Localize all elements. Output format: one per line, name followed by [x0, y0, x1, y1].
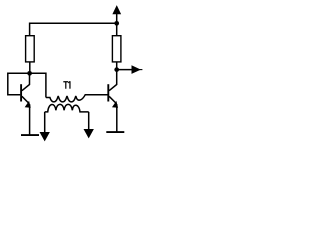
resistor R1	[26, 36, 35, 62]
wire output to the right	[117, 69, 133, 71]
wire top rail from R1 top to supply node	[30, 23, 117, 35]
wire base feedback loop to Q1 base	[8, 73, 30, 95]
transistor Q2 base bar	[107, 84, 109, 101]
wire R2 bottom lead	[116, 62, 118, 70]
wire Q1 emitter down	[29, 104, 31, 135]
power supply arrow up	[116, 13, 118, 23]
ground (bar) under Q2	[106, 131, 124, 133]
transistor Q1 base bar	[20, 84, 22, 101]
resistor R2	[112, 36, 121, 62]
label T1	[63, 81, 70, 89]
node VCC junction	[114, 21, 119, 26]
node A (R1 bottom / Q1 base-collector junction)	[27, 71, 32, 76]
wire T1 secondary right terminal down	[88, 112, 90, 130]
transformer T1 primary winding (upper)	[46, 95, 108, 102]
transistor Q2 emitter	[109, 96, 116, 103]
wire R2 top lead	[116, 23, 118, 36]
wire T1 secondary left terminal down	[44, 112, 46, 133]
wire node A to T1 primary left terminal	[30, 73, 46, 97]
transformer T1 secondary winding (lower)	[45, 104, 89, 112]
ground (arrow) left	[40, 132, 49, 140]
transistor Q1 emitter arrowhead	[25, 102, 30, 108]
output arrow right	[132, 66, 140, 73]
transistor Q1 collector	[22, 73, 30, 90]
transistor Q2 collector	[109, 70, 117, 91]
node output junction	[114, 67, 119, 72]
ground (bar) under Q1	[21, 134, 39, 136]
ground (arrow) right	[84, 129, 93, 137]
wire R1 bottom lead	[29, 62, 31, 73]
wire Q2 emitter down	[116, 104, 118, 132]
transistor Q2 emitter arrowhead	[113, 102, 118, 108]
transistor Q1 emitter	[22, 96, 29, 103]
